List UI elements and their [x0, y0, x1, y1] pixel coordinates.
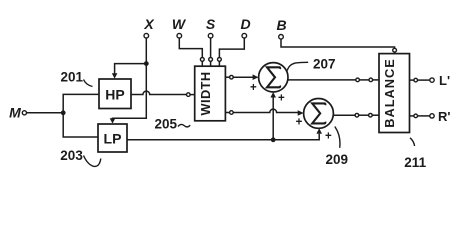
junction X / HP feedback: [144, 61, 149, 66]
svg-text:BALANCE: BALANCE: [382, 58, 397, 128]
wire summer 209 output to BALANCE: [333, 114, 355, 116]
stem BALANCE top: [394, 52, 396, 54]
wire junction to LP input: [63, 113, 98, 137]
terminal BALANCE in1: [369, 78, 373, 82]
wire into BALANCE: [373, 79, 379, 81]
wire LP output / bottom rail: [127, 134, 319, 140]
wire B to BALANCE top: [281, 39, 395, 48]
wire summer207 bottom input (vertical from junction): [272, 97, 274, 140]
terminal WIDTH in3: [218, 58, 222, 62]
svg-text:HP: HP: [105, 86, 124, 102]
svg-text:211: 211: [404, 155, 426, 170]
leader 203: [84, 156, 101, 167]
svg-text:LP: LP: [104, 130, 122, 146]
stem WIDTH left input: [190, 94, 195, 96]
arrowhead into LP top: [110, 118, 116, 123]
wire M to split junction: [27, 112, 64, 114]
junction bottom rail: [271, 137, 276, 142]
svg-text:R': R': [438, 109, 450, 124]
terminal BALANCE in2: [369, 113, 373, 117]
wire X down (through junction, to LP control): [113, 38, 147, 119]
terminal W: [177, 33, 182, 38]
wire L': [418, 79, 430, 81]
wire segment: [359, 79, 369, 81]
sigma glyph 209: [312, 103, 325, 123]
block LP: [98, 124, 127, 152]
terminal BALANCE top: [393, 48, 397, 52]
summer 207 circle: [259, 63, 288, 92]
wire X junction to HP control: [115, 64, 147, 75]
svg-text:+: +: [325, 131, 332, 143]
block HP: [99, 79, 131, 109]
arrowhead into summer 209 left: [298, 110, 304, 116]
arrowhead into summer 207 left: [253, 74, 259, 80]
wire HP output to WIDTH (hops over X line): [131, 91, 187, 94]
svg-text:D: D: [240, 16, 250, 32]
leader 205 tilde: [178, 124, 190, 127]
svg-text:+: +: [278, 93, 285, 105]
wire junction to HP input: [63, 94, 99, 113]
svg-text:201: 201: [61, 70, 84, 85]
terminal 209 out: [355, 113, 359, 117]
svg-text:W: W: [172, 16, 187, 32]
svg-text:+: +: [296, 117, 303, 129]
block BALANCE (211): [379, 54, 410, 133]
wire BALANCE out R': [410, 115, 414, 117]
svg-text:L': L': [439, 73, 450, 88]
svg-text:209: 209: [326, 152, 349, 167]
svg-text:+: +: [250, 82, 257, 94]
leader 201: [84, 80, 93, 87]
svg-text:WIDTH: WIDTH: [198, 72, 213, 116]
arrowhead into HP top: [112, 73, 118, 78]
svg-text:B: B: [276, 17, 286, 33]
terminal R' outer: [430, 114, 434, 118]
terminal L' outer: [430, 78, 434, 82]
svg-text:S: S: [206, 16, 216, 32]
svg-text:M: M: [9, 104, 21, 120]
stem in3: [218, 61, 220, 66]
terminal WIDTH out1: [230, 75, 234, 79]
terminal L' inner: [414, 78, 418, 82]
svg-text:X: X: [143, 16, 155, 32]
leader 207: [287, 62, 308, 70]
terminal M: [22, 111, 26, 115]
arrowhead into summer 207 bottom: [270, 92, 276, 97]
terminal WIDTH left input: [187, 93, 191, 97]
summer 209 circle: [304, 99, 334, 129]
terminal 207 out: [356, 78, 360, 82]
sigma glyph 207: [267, 67, 280, 87]
stem in2: [210, 61, 212, 66]
terminal WIDTH in2: [209, 58, 213, 62]
wire BALANCE out L': [410, 79, 414, 81]
wire summer 207 output to BALANCE: [288, 79, 356, 81]
junction M split: [61, 110, 66, 115]
arrowhead into summer 209 bottom: [316, 128, 322, 133]
stem in1: [201, 61, 203, 66]
wire WIDTH top output to summer 207: [225, 76, 229, 78]
terminal S: [208, 33, 213, 38]
terminal D: [242, 33, 247, 38]
wire to summer 209 left with hop: [233, 109, 298, 112]
block WIDTH (205): [195, 66, 226, 121]
terminal WIDTH out2: [230, 111, 234, 115]
leader 209: [335, 127, 340, 148]
wire into BALANCE: [372, 114, 379, 116]
wire W to WIDTH: [179, 38, 202, 57]
terminal X: [144, 33, 149, 38]
wire S to WIDTH: [210, 38, 212, 57]
svg-text:207: 207: [313, 56, 336, 71]
terminal WIDTH in1: [200, 58, 204, 62]
terminal R' inner: [414, 114, 418, 118]
svg-text:203: 203: [60, 148, 83, 163]
wire segment: [359, 114, 369, 116]
wire to summer 207 left: [233, 76, 253, 78]
terminal B: [279, 35, 284, 40]
wire D to WIDTH: [219, 38, 244, 57]
wire R': [418, 115, 430, 117]
leader 211: [410, 138, 415, 146]
svg-text:205: 205: [155, 116, 178, 131]
wire WIDTH bottom output to summer 209 (hops over vertical): [225, 112, 229, 114]
